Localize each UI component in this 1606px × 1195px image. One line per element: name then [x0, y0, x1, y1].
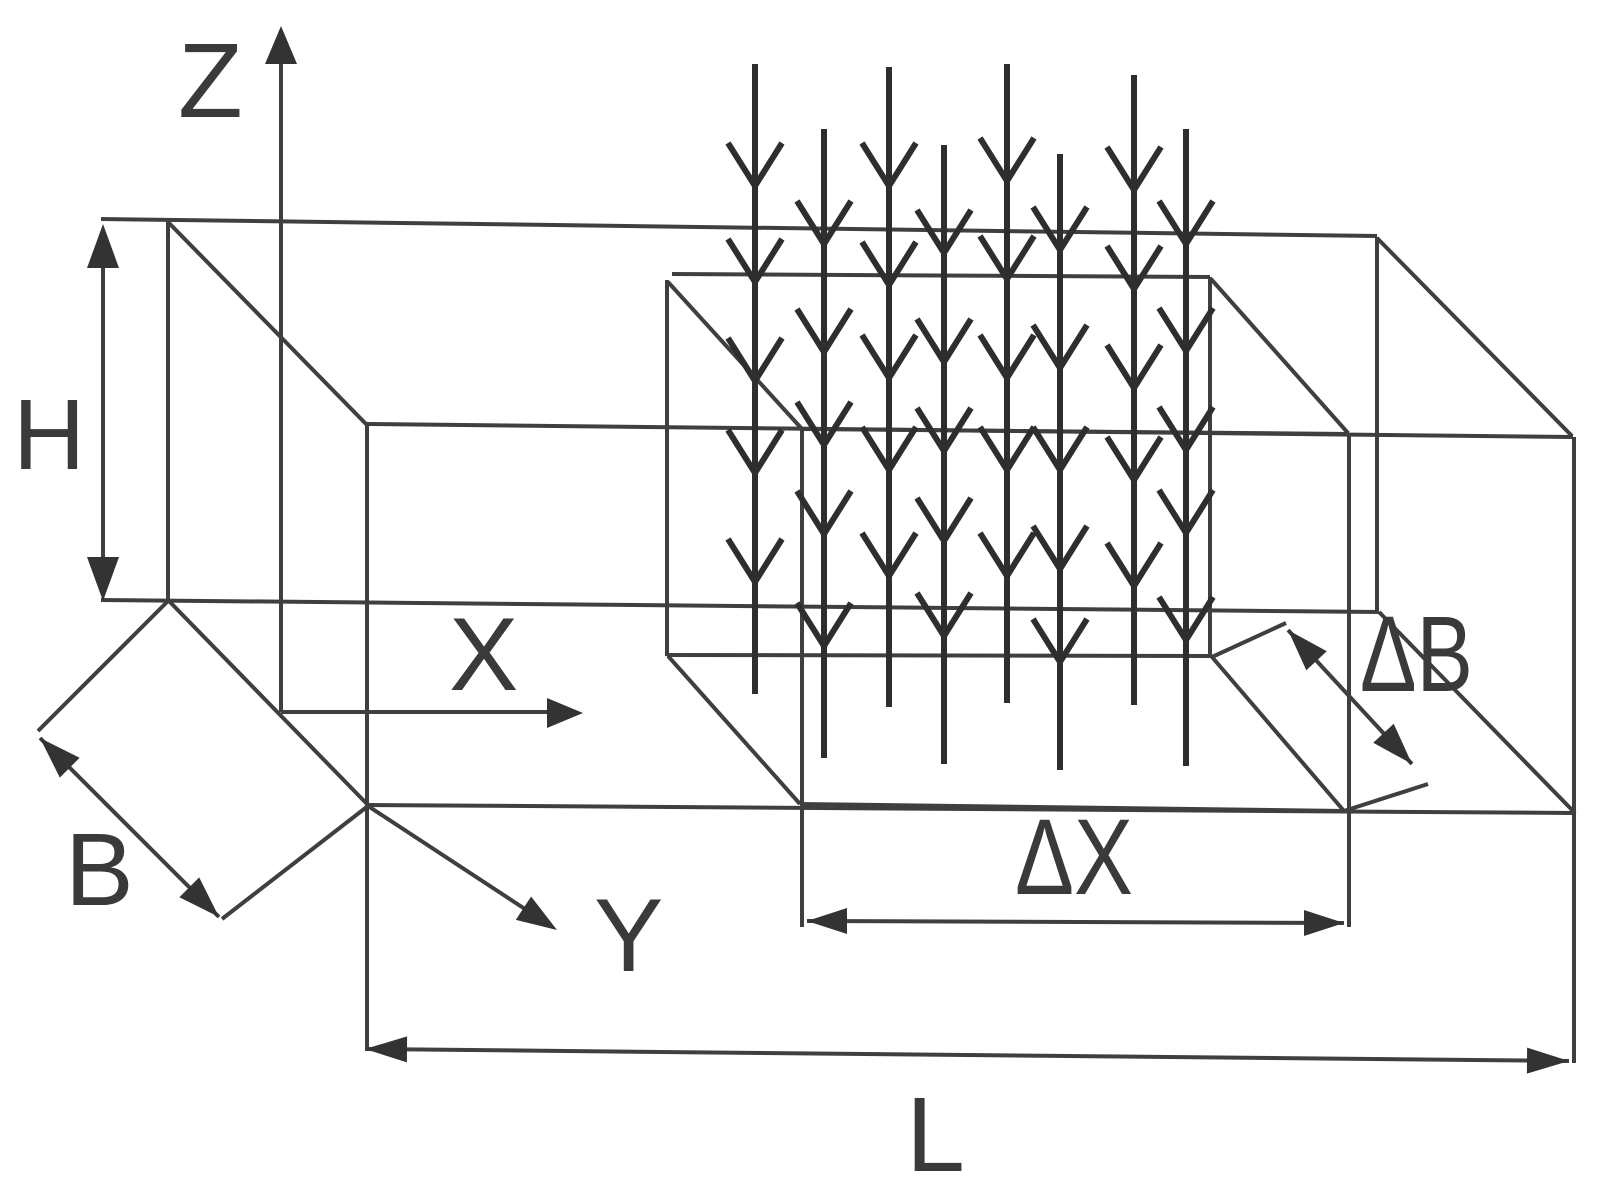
rain arrow back column 4 — [1107, 75, 1161, 705]
rain arrow front column 4 — [1159, 129, 1213, 766]
inner box: back bottom edge — [667, 655, 1212, 656]
delta B dimension arrow — [1288, 630, 1412, 764]
rain arrow front column 3 — [1033, 154, 1087, 770]
delta B dimension extension line from inner front bottom right corner — [1344, 784, 1428, 811]
inner box: back right vertical edge — [1208, 277, 1212, 657]
Z axis — [265, 26, 297, 712]
outer box: top right receding edge — [1377, 238, 1572, 436]
svg-text:Y: Y — [594, 878, 663, 994]
outer box: top left receding edge — [168, 222, 367, 425]
inner box: bottom right receding edge — [1212, 657, 1344, 811]
inner control volume box: back top edge — [672, 274, 1210, 277]
B dimension extension line from back bottom corner — [38, 601, 168, 731]
inner box: bottom left receding edge — [668, 656, 800, 804]
inner box: front right vertical edge with extension to DX dimension — [1347, 434, 1351, 927]
rain arrow back column 3 — [980, 64, 1034, 703]
outer box: front bottom edge — [368, 805, 1576, 813]
svg-text:H: H — [13, 379, 85, 491]
outer box: back top edge — [101, 219, 1377, 236]
rain arrow back column 2 — [862, 67, 916, 707]
svg-text:ΔB: ΔB — [1360, 593, 1473, 714]
inner box: front top edge — [802, 429, 1349, 434]
outer box: back bottom edge — [101, 600, 1379, 612]
inner box: front left vertical edge with extension to DX dimension — [800, 429, 804, 927]
delta B dimension extension line from inner back bottom right corner — [1212, 623, 1286, 657]
X axis — [281, 698, 583, 728]
outer box: front right vertical edge with extension to L dimension — [1572, 437, 1576, 1063]
outer box: bottom left receding edge — [168, 600, 368, 805]
inner box: back left vertical edge — [665, 280, 669, 656]
B dimension arrow — [40, 738, 219, 917]
rain arrow front column 2 — [917, 145, 971, 764]
svg-text:L: L — [906, 1076, 965, 1190]
Y axis — [368, 806, 557, 930]
rain arrow back column 1 — [728, 64, 782, 694]
svg-text:Z: Z — [178, 22, 243, 140]
svg-text:X: X — [449, 597, 518, 713]
svg-text:B: B — [65, 812, 134, 927]
outer box: front left vertical edge with extension to L dimension — [365, 424, 369, 1051]
outer box: bottom right receding edge — [1379, 612, 1575, 813]
B dimension extension line from front bottom corner — [222, 806, 368, 919]
inner box: front bottom edge — [800, 804, 1344, 811]
rain arrow front column 1 — [797, 129, 851, 758]
L dimension arrow — [365, 1036, 1569, 1073]
inner box: top left receding edge — [668, 282, 802, 429]
delta X dimension arrow — [807, 908, 1344, 936]
outer box: front top edge — [367, 424, 1573, 437]
svg-text:ΔX: ΔX — [1015, 796, 1133, 917]
outer box: back right vertical edge — [1375, 237, 1379, 612]
inner box: top right receding edge — [1211, 279, 1348, 433]
outer box: back left vertical edge — [166, 221, 170, 601]
H dimension arrow — [87, 224, 119, 601]
